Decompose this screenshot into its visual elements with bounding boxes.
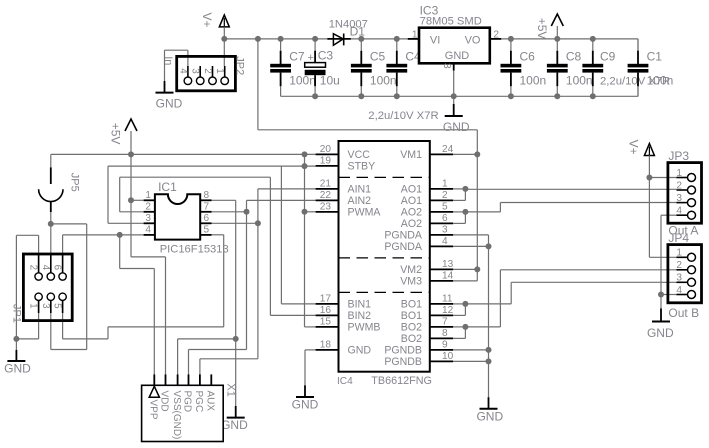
svg-text:GND: GND: [221, 418, 248, 432]
svg-text:PGC: PGC: [193, 391, 204, 413]
wire MCLR drop: [119, 235, 121, 269]
svg-text:C8: C8: [566, 49, 582, 63]
wire PGC bottom jog: [200, 358, 258, 360]
voltage regulator IC3 78M05 SMD: [408, 3, 502, 70]
node AO1 junction: [462, 186, 468, 192]
svg-text:100n: 100n: [566, 74, 593, 88]
wire AO1 loop pin1: [453, 188, 465, 190]
svg-text:VM1: VM1: [400, 149, 422, 161]
svg-text:C3: C3: [318, 49, 334, 63]
svg-text:6: 6: [442, 213, 448, 224]
wire gnd to JP1 pin1: [16, 338, 38, 340]
svg-text:In: In: [162, 56, 174, 65]
svg-text:6: 6: [204, 213, 210, 224]
svg-text:GND: GND: [4, 362, 31, 376]
wire BIN1 entry: [281, 303, 315, 305]
svg-text:BO1: BO1: [401, 299, 422, 311]
wire BO1 east: [465, 303, 511, 305]
svg-text:4: 4: [442, 236, 448, 247]
svg-text:JP5: JP5: [68, 173, 80, 192]
wire vertical V+ bus to motor supply pins: [476, 130, 478, 281]
wire IC1 pin2: [120, 211, 144, 213]
svg-text:BIN2: BIN2: [348, 310, 372, 322]
node MCLR junction: [117, 232, 123, 238]
wire VM2 pin13: [453, 268, 477, 270]
node C8 top: [554, 36, 560, 42]
node C5 top: [358, 36, 364, 42]
wire PGC/AIN1 vertical: [257, 189, 259, 359]
svg-text:VCC: VCC: [348, 149, 371, 161]
wire PWMB entry: [305, 326, 316, 328]
wire X1 PGD drop: [188, 350, 190, 375]
svg-text:Out B: Out B: [668, 306, 699, 320]
wire JP5 net down: [86, 224, 88, 350]
svg-text:2: 2: [676, 260, 682, 271]
svg-text:GND: GND: [292, 398, 319, 412]
svg-text:VPP: VPP: [148, 400, 159, 420]
wire JP1 pin1 drop: [38, 300, 40, 339]
wire +5V down to IC1 VDD: [130, 154, 132, 257]
svg-text:+5V: +5V: [109, 123, 123, 145]
wire AO2 loop vertical: [464, 212, 466, 224]
svg-text:GND: GND: [445, 50, 470, 62]
svg-text:3: 3: [442, 225, 448, 236]
diode D1 1N4007: [327, 18, 368, 45]
wire IC1 pin7 PGD: [212, 211, 247, 213]
capacitor C9: [582, 39, 670, 96]
node C9 bottom: [590, 93, 596, 99]
ground symbol below PGND: [476, 397, 503, 423]
node C3 bottom: [312, 93, 318, 99]
wire BO2 loop vertical: [464, 327, 466, 339]
wire +5V drop PWMA/PWMB: [304, 154, 306, 327]
svg-text:100n: 100n: [370, 74, 397, 88]
wire BO2 loop pin8: [453, 337, 465, 339]
svg-text:V+: V+: [200, 12, 214, 27]
svg-text:PGNDB: PGNDB: [384, 345, 422, 357]
svg-text:PGNDB: PGNDB: [384, 356, 422, 368]
wire JP3 pin1: [649, 177, 676, 179]
node JP4 pin4 junction: [658, 292, 664, 298]
connector JP3: [668, 163, 702, 224]
wire JP2 pin 1 drop: [223, 39, 225, 66]
svg-text:11: 11: [442, 294, 453, 305]
svg-text:GND: GND: [476, 409, 503, 423]
svg-text:4: 4: [676, 285, 682, 296]
wire IC1 pin6 PGC: [212, 222, 258, 224]
svg-text:AO2: AO2: [401, 207, 422, 219]
ground symbol below In: [156, 81, 183, 111]
svg-text:12: 12: [442, 305, 454, 316]
wire JP5 net right: [51, 223, 87, 225]
node AO2 junction: [462, 209, 468, 215]
wire AO1 loop vertical: [464, 189, 466, 201]
svg-text:4: 4: [145, 225, 151, 236]
wire VM3 pin14: [453, 280, 477, 282]
ground symbol below IC3: [443, 104, 470, 134]
svg-text:23: 23: [320, 202, 332, 213]
svg-text:JP4: JP4: [668, 231, 689, 245]
svg-text:15: 15: [320, 317, 332, 328]
wire horizontal VM1 feed: [258, 129, 477, 131]
connector X1 ICSP: [142, 374, 224, 441]
svg-text:GND: GND: [156, 97, 183, 111]
svg-text:10u: 10u: [320, 74, 340, 88]
node C4 bottom: [394, 93, 400, 99]
node C9 top: [590, 36, 596, 42]
wire VPP drop to X1: [153, 269, 155, 375]
wire BO2 to JP4 pin2: [500, 269, 676, 271]
wire JP1 pin2 riser: [38, 235, 40, 266]
wire BO1 to JP4 pin3: [511, 281, 676, 283]
capacitor C6: [501, 39, 547, 96]
connector JP1: [23, 254, 72, 321]
svg-text:21: 21: [320, 179, 332, 190]
ground symbol below JP1: [4, 350, 31, 376]
wire AIN1 net horizontal: [258, 188, 316, 190]
capacitor C8: [547, 39, 593, 96]
wire X1 VSS(GND) horizontal: [178, 338, 236, 340]
wire +5V VCC rail: [51, 153, 316, 155]
svg-text:GND: GND: [443, 120, 470, 134]
wire rail IC3 output to C1 branch: [501, 38, 638, 40]
svg-text:1: 1: [442, 179, 448, 190]
node PGC junction: [255, 220, 261, 226]
svg-text:PGNDA: PGNDA: [384, 230, 423, 242]
svg-text:3: 3: [676, 273, 682, 284]
svg-text:78M05 SMD: 78M05 SMD: [420, 16, 482, 28]
ground symbol below JP4: [647, 309, 674, 341]
svg-text:PWMB: PWMB: [348, 322, 381, 334]
wire In-net vertical to GND: [164, 50, 166, 81]
node BO1 junction: [462, 301, 468, 307]
svg-text:C6: C6: [520, 49, 536, 63]
wire PGNDA pin4: [453, 245, 488, 247]
wire PGD/AIN2 vertical: [246, 200, 248, 349]
svg-text:9: 9: [442, 340, 448, 351]
svg-text:JP2: JP2: [233, 56, 245, 75]
svg-text:BO2: BO2: [401, 322, 422, 334]
svg-text:2,2u/10V X7R: 2,2u/10V X7R: [368, 110, 438, 122]
wire AIN2 net horizontal: [247, 199, 316, 201]
wire VM1 pin24: [453, 153, 477, 155]
svg-text:BO2: BO2: [401, 333, 422, 345]
svg-text:1: 1: [28, 303, 39, 308]
wire VSS drop: [235, 200, 237, 406]
svg-text:IC4: IC4: [337, 376, 353, 387]
svg-text:18: 18: [320, 340, 332, 351]
wire BO2 riser: [499, 270, 501, 327]
svg-text:PIC16F15313: PIC16F15313: [160, 243, 229, 255]
svg-text:VSS(GND): VSS(GND): [171, 391, 182, 440]
wire pin5 net right riser: [223, 235, 225, 327]
node C6 top: [508, 36, 514, 42]
node junction V+ / JP2 pin1: [221, 36, 227, 42]
node rail junction x258: [255, 36, 261, 42]
wire IC3 gnd stub: [453, 96, 455, 104]
wire PGNDB pin10: [453, 360, 488, 362]
node C5 bottom: [358, 93, 364, 99]
wire STBY net horizontal: [108, 165, 316, 167]
wire pin5 net horizontal: [108, 326, 224, 328]
wire JP4 pin1: [649, 256, 676, 258]
svg-text:2: 2: [28, 265, 39, 270]
svg-text:3: 3: [190, 68, 201, 74]
wire PGND vertical: [488, 235, 490, 397]
node IC1 pin1 junction: [128, 197, 134, 203]
node V+/JP3 pin1 junction: [646, 175, 652, 181]
wire VDD jog to X1: [131, 256, 166, 258]
wire BO1 loop pin12: [453, 314, 465, 316]
wire pin5 net bottom: [63, 338, 108, 340]
wire bottom capacitor rail: [281, 95, 638, 97]
node STBY junction: [302, 163, 308, 169]
node PGNDB-9 junction: [486, 347, 492, 353]
svg-text:AO1: AO1: [401, 184, 422, 196]
node PWMA junction: [302, 209, 308, 215]
wire IC3 GND pin to rail: [453, 71, 455, 97]
svg-text:AO2: AO2: [401, 218, 422, 230]
svg-text:1: 1: [676, 248, 682, 259]
wire AO2 riser: [499, 203, 501, 212]
svg-text:PGNDA: PGNDA: [384, 241, 423, 253]
svg-text:C5: C5: [370, 49, 386, 63]
wire STBY-branch drop to BIN1: [280, 166, 282, 304]
capacitor C7: [270, 39, 316, 96]
wire AO2 loop pin5: [453, 211, 465, 213]
svg-text:+: +: [308, 52, 314, 64]
wire IC4 gnd drop: [304, 350, 306, 385]
V+ supply symbol right: [644, 144, 654, 156]
capacitor C4: [386, 39, 421, 96]
wire RA5 net horizontal: [120, 176, 271, 178]
svg-text:1: 1: [676, 168, 682, 179]
svg-text:C1: C1: [647, 49, 663, 63]
svg-text:3: 3: [145, 213, 151, 224]
svg-text:8: 8: [204, 190, 210, 201]
svg-text:6: 6: [52, 265, 63, 271]
svg-text:3: 3: [441, 63, 452, 69]
svg-text:STBY: STBY: [348, 161, 376, 173]
wire PWMA entry: [305, 211, 316, 213]
svg-text:24: 24: [442, 144, 454, 155]
ground symbol below IC4: [292, 385, 319, 411]
wire C1 top corner: [637, 39, 639, 51]
wire gnd net top: [16, 234, 38, 236]
node gnd junction left: [13, 336, 19, 342]
svg-text:2: 2: [145, 202, 151, 213]
node PGD junction: [244, 209, 250, 215]
wire RA5 drop to BIN2: [269, 177, 271, 315]
svg-text:V+: V+: [627, 140, 641, 155]
node +5V rail junction: [128, 151, 134, 157]
svg-text:13: 13: [442, 259, 454, 270]
wire MCLR jog: [120, 268, 155, 270]
wire PGD bottom jog: [189, 349, 247, 351]
wire JP1 pin4 drop: [50, 224, 52, 266]
svg-text:C9: C9: [600, 49, 616, 63]
node VM1 junction: [474, 151, 480, 157]
svg-text:PGD: PGD: [182, 391, 193, 413]
svg-text:AIN1: AIN1: [348, 184, 372, 196]
wire AO1 loop pin2: [453, 199, 465, 201]
wire BO1 riser: [510, 282, 512, 304]
wire JP4 pin4: [661, 294, 677, 296]
svg-text:1: 1: [214, 68, 225, 73]
node IC3 gnd junction: [451, 93, 457, 99]
svg-text:3: 3: [40, 303, 51, 309]
microcontroller IC1 PIC16F15313: [144, 180, 229, 256]
svg-text:4: 4: [676, 206, 682, 217]
svg-text:14: 14: [442, 271, 454, 282]
wire top supply rail V+: [224, 38, 328, 40]
wire out gnd stem: [660, 295, 662, 309]
svg-text:JP1: JP1: [11, 304, 23, 323]
svg-text:VDD: VDD: [159, 391, 170, 412]
svg-text:2: 2: [202, 68, 213, 73]
node PGNDB-10 junction: [486, 358, 492, 364]
svg-text:19: 19: [320, 156, 332, 167]
svg-text:5: 5: [442, 202, 448, 213]
wire JP3 pin4: [661, 214, 677, 216]
wire AO2 loop pin6: [453, 222, 465, 224]
capacitor C3 electrolytic: [305, 39, 340, 96]
wire X1 PGC drop: [199, 359, 201, 375]
svg-text:BO1: BO1: [401, 310, 422, 322]
wire rail diode to IC3: [350, 38, 408, 40]
svg-text:5: 5: [204, 225, 210, 236]
wire +5V shaft: [556, 26, 558, 39]
node PGNDA junction: [486, 243, 492, 249]
wire IC1 pin8 VSS: [212, 199, 236, 201]
wire PGNDB pin9: [453, 349, 488, 351]
wire In-net bracket horizontal: [165, 49, 188, 51]
svg-text:20: 20: [320, 144, 332, 155]
ground symbol below X1: [221, 406, 248, 432]
wire V+ arrow shaft to rail: [223, 27, 225, 39]
wire C1 bottom corner: [637, 86, 639, 96]
wire JP1 pin6 riser: [62, 235, 64, 266]
svg-text:17: 17: [320, 294, 332, 305]
svg-text:TB6612FNG: TB6612FNG: [371, 375, 432, 387]
svg-text:IC1: IC1: [158, 180, 177, 194]
wire gnd stem: [15, 339, 17, 350]
wire gnd net left vertical: [15, 235, 17, 339]
svg-text:8: 8: [442, 328, 448, 339]
node C6 bottom: [508, 93, 514, 99]
svg-text:10: 10: [442, 351, 454, 362]
node C3 top: [312, 36, 318, 42]
svg-text:7: 7: [204, 202, 210, 213]
+5V supply symbol top: [551, 14, 563, 26]
wire pin5 net riser: [107, 327, 109, 339]
svg-text:C7: C7: [289, 49, 305, 63]
wire JP2 pin 4 drop: [187, 50, 189, 66]
svg-text:5: 5: [52, 303, 63, 309]
wire JP5 net bottom to JP1 pin3: [51, 349, 87, 351]
svg-text:1: 1: [145, 190, 151, 201]
wire PGNDA pin3: [453, 234, 488, 236]
node VCC rail junction: [302, 151, 308, 157]
wire BIN2 entry: [270, 314, 315, 316]
svg-text:PWMA: PWMA: [348, 207, 382, 219]
svg-text:7: 7: [442, 317, 448, 328]
svg-text:AUX: AUX: [205, 391, 216, 412]
node C4 top: [394, 36, 400, 42]
wire out gnd vertical: [660, 215, 662, 294]
node VSS/X1 junction: [233, 336, 239, 342]
wire IC4 GND pin18: [305, 349, 316, 351]
svg-text:3: 3: [676, 193, 682, 204]
svg-text:22: 22: [320, 190, 332, 201]
capacitor C1: [628, 39, 674, 96]
node C7 top: [278, 36, 284, 42]
wire BO2 east: [465, 326, 500, 328]
wire MCLR net horizontal: [63, 234, 144, 236]
svg-text:100n: 100n: [647, 74, 674, 88]
wire AO1 to JP3 pin2: [465, 188, 676, 190]
svg-text:2: 2: [676, 180, 682, 191]
node BO2 junction: [462, 324, 468, 330]
wire X1 VSS(GND) drop: [177, 339, 179, 375]
svg-text:1: 1: [412, 29, 418, 40]
svg-text:VM2: VM2: [400, 264, 422, 276]
V+ supply symbol top-left: [219, 15, 229, 27]
svg-text:4: 4: [40, 265, 51, 271]
wire vertical to VM1 feed: [257, 39, 259, 130]
wire +5V left shaft: [130, 131, 132, 154]
wire RA5 riser: [119, 177, 121, 212]
node JP5 junction: [48, 221, 54, 227]
svg-text:X1: X1: [225, 383, 237, 396]
wire AO2 to JP3 pin3: [500, 202, 676, 204]
svg-text:JP3: JP3: [668, 149, 689, 163]
svg-text:+5V: +5V: [535, 18, 549, 40]
svg-text:AO1: AO1: [401, 195, 422, 207]
wire STBY net left riser: [107, 166, 109, 223]
svg-text:100n: 100n: [520, 74, 547, 88]
svg-text:VI: VI: [430, 34, 440, 46]
wire V+ right vertical: [648, 156, 650, 258]
svg-text:GND: GND: [348, 345, 372, 357]
wire IC1 pin5: [212, 234, 224, 236]
motor driver IC4 TB6612FNG: [316, 141, 454, 387]
wire VDD drop to X1 pin: [165, 257, 167, 375]
svg-text:100n: 100n: [289, 74, 316, 88]
svg-text:2: 2: [493, 29, 499, 40]
connector JP2: [177, 56, 236, 90]
jumper JP5: [39, 154, 63, 224]
node VM2 junction: [474, 266, 480, 272]
wire BO1 loop vertical: [464, 304, 466, 316]
capacitor C5: [351, 39, 397, 96]
svg-text:AIN2: AIN2: [348, 195, 372, 207]
svg-text:BIN1: BIN1: [348, 299, 372, 311]
wire BO1 loop pin11: [453, 303, 465, 305]
connector JP4: [668, 245, 702, 303]
svg-text:VO: VO: [465, 34, 481, 46]
wire JP1 pin3 riser: [50, 300, 52, 349]
wire AO2 east: [465, 211, 500, 213]
svg-text:16: 16: [320, 305, 332, 316]
+5V supply symbol left: [125, 119, 137, 131]
node C8 bottom: [554, 93, 560, 99]
wire IC1 pin1 VDD: [131, 199, 144, 201]
svg-text:VM3: VM3: [400, 276, 422, 288]
svg-text:GND: GND: [647, 326, 674, 340]
wire BO2 loop pin7: [453, 326, 465, 328]
svg-text:2: 2: [442, 190, 448, 201]
